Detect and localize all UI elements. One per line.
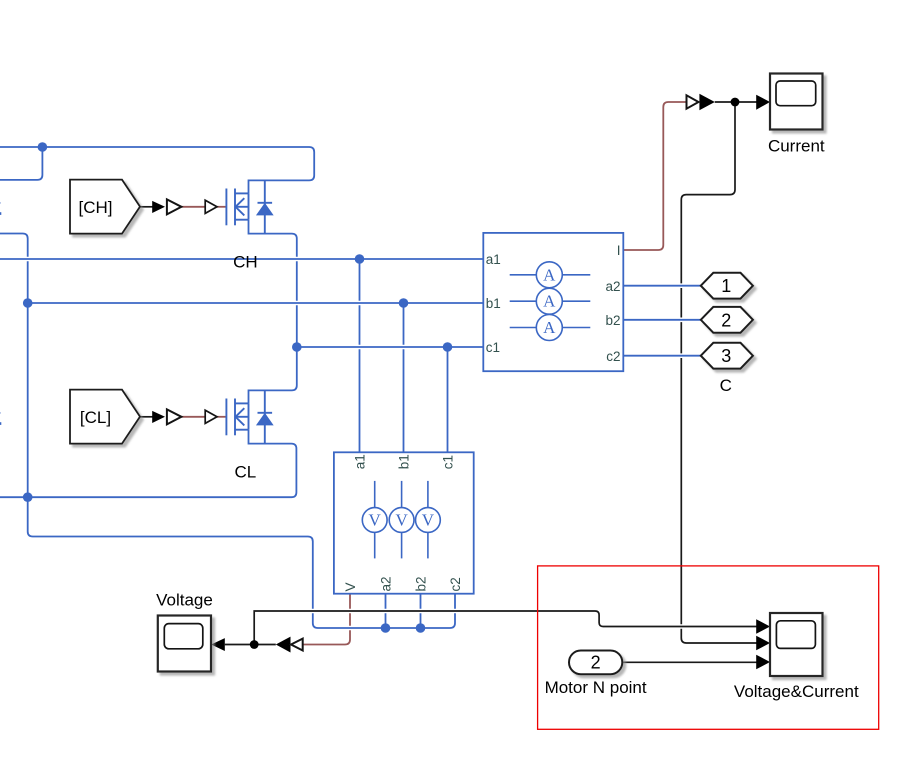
svg-text:Voltage: Voltage <box>156 591 213 610</box>
svg-text:V: V <box>343 582 358 591</box>
wire neutral to voltage block c2 <box>28 497 455 628</box>
node phase c tap <box>443 342 453 352</box>
MOSFET CH gate port triangle <box>205 200 217 213</box>
svg-text:[CH]: [CH] <box>79 198 113 217</box>
svg-text:2: 2 <box>591 653 601 673</box>
ammeter A3 <box>510 315 591 341</box>
wire b2 stub <box>420 594 422 628</box>
arrowhead converter output top <box>699 94 714 111</box>
wire CL tag to converter <box>140 416 154 418</box>
arrowhead into Voltage scope <box>211 638 225 651</box>
svg-text:b2: b2 <box>414 576 429 591</box>
wire branch current to V&C scope input 2 <box>681 102 756 643</box>
svg-text:V: V <box>369 511 382 530</box>
voltmeter V3 <box>416 481 441 559</box>
area box (red annotation) <box>538 566 879 729</box>
converter block CH <box>167 199 182 214</box>
wire phase b drop to voltmeter b1 <box>403 303 405 452</box>
svg-text:C: C <box>720 376 732 395</box>
diode CH body <box>257 204 273 215</box>
connection port 2 <box>701 307 753 333</box>
wire converter to Current scope <box>715 101 757 103</box>
svg-text:I: I <box>617 243 621 258</box>
wire phase c drop to voltmeter c1 <box>447 347 449 452</box>
svg-text:a2: a2 <box>379 576 394 591</box>
node phase b left <box>23 298 33 308</box>
fragment cut block top-left <box>0 202 1 215</box>
scope Current <box>770 74 823 130</box>
arrowhead into V&C input 1 <box>756 619 770 634</box>
wire V measurement to converter (physical) <box>303 594 350 645</box>
wire c2 to port 3 <box>623 353 701 358</box>
wire Motor N point to V&C scope input 3 <box>622 661 756 663</box>
svg-text:A: A <box>543 318 556 337</box>
connection port 3 <box>701 343 753 369</box>
svg-text:b2: b2 <box>605 313 620 328</box>
svg-text:[CL]: [CL] <box>80 408 111 427</box>
svg-text:3: 3 <box>721 346 731 366</box>
converter block PS-Simulink (bottom, open triangle) <box>291 639 303 651</box>
wire CH gate physical segment 2 <box>217 206 226 208</box>
connection port 1 <box>701 273 753 299</box>
arrowhead into Current scope <box>756 95 770 110</box>
wire phase c line <box>297 345 484 350</box>
svg-text:Motor N point: Motor N point <box>545 678 647 697</box>
svg-text:1: 1 <box>721 276 731 296</box>
ammeter A2 <box>510 288 591 314</box>
wire phase b line <box>28 301 484 306</box>
node b2 neutral <box>416 623 426 633</box>
MOSFET CL gate port triangle <box>205 410 217 423</box>
wire CH gate physical segment 1 <box>182 206 206 208</box>
svg-text:A: A <box>543 265 556 284</box>
voltage measurement subsystem <box>334 452 474 593</box>
wire CH tag to converter <box>140 206 154 208</box>
fragment cut block mid-left <box>0 412 1 425</box>
wire CL gate physical segment 1 <box>182 416 206 418</box>
diode CL body <box>257 414 273 425</box>
node current branch <box>731 98 740 107</box>
tag block [CL] <box>70 390 140 444</box>
svg-text:CL: CL <box>235 462 257 481</box>
arrowhead into V&C input 3 <box>756 655 770 670</box>
wire top DC+ rail <box>0 147 314 193</box>
tag block [CH] <box>70 180 140 234</box>
wire a2 to port 1 <box>623 283 701 288</box>
node phase c at leg output <box>292 342 302 352</box>
node on top rail <box>38 142 48 152</box>
wire CL gate physical segment 2 <box>217 416 226 418</box>
arrowhead CL tag output <box>152 411 165 423</box>
svg-text:c1: c1 <box>441 455 456 469</box>
node voltage branch <box>250 640 259 649</box>
node phase b tap <box>399 298 409 308</box>
wire phase b vertical to neutral node <box>27 303 29 497</box>
svg-text:a2: a2 <box>605 279 620 294</box>
node a2 neutral <box>381 623 391 633</box>
svg-text:b1: b1 <box>397 454 412 469</box>
wire I measurement to converter (physical) <box>623 102 686 250</box>
svg-text:Voltage&Current: Voltage&Current <box>734 682 859 701</box>
transistor CH (MOSFET with body diode) <box>226 180 272 233</box>
inport 2 Motor N point <box>569 651 622 675</box>
arrowhead CH tag output <box>152 201 165 213</box>
transistor CL (MOSFET with body diode) <box>226 390 272 443</box>
wire rail drop to left edge <box>0 147 42 180</box>
wire voltage junction to V&C scope input 1 <box>254 611 756 645</box>
svg-text:c2: c2 <box>606 349 620 364</box>
node neutral left <box>23 492 33 502</box>
wire phase a drop to voltmeter a1 <box>359 259 361 452</box>
svg-text:c1: c1 <box>486 340 500 355</box>
voltmeter V1 <box>362 481 387 559</box>
arrowhead converter output bottom <box>276 637 291 653</box>
wire CL source to neutral rail <box>0 430 296 498</box>
wire left feed to phase b <box>0 234 28 304</box>
svg-text:c2: c2 <box>448 577 463 591</box>
wire CH source to CL drain <box>249 220 297 404</box>
svg-text:V: V <box>395 511 408 530</box>
wire converter to voltage junction <box>254 644 276 646</box>
scope Voltage&Current <box>770 613 823 676</box>
svg-text:CH: CH <box>233 252 258 271</box>
converter block PS-Simulink (top, open triangle) <box>687 95 699 108</box>
arrowhead into V&C input 2 <box>756 636 770 651</box>
svg-text:A: A <box>543 292 556 311</box>
voltmeter V2 <box>389 481 414 559</box>
wire a2 stub <box>385 594 387 628</box>
converter block CL <box>167 409 182 424</box>
wire phase a line <box>0 257 483 262</box>
wire b2 to port 2 <box>623 317 701 322</box>
svg-text:Current: Current <box>768 137 825 156</box>
wire junction to Voltage scope <box>225 644 254 646</box>
current measurement subsystem <box>483 233 623 371</box>
svg-text:V: V <box>422 511 435 530</box>
svg-text:a1: a1 <box>353 454 368 469</box>
svg-text:a1: a1 <box>486 252 501 267</box>
ammeter A1 <box>510 262 591 288</box>
svg-text:2: 2 <box>721 310 731 330</box>
svg-text:b1: b1 <box>486 296 501 311</box>
node phase a tap <box>355 254 365 264</box>
scope Voltage <box>158 616 211 672</box>
